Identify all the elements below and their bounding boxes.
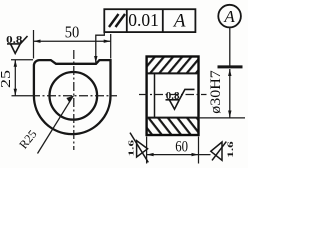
svg-text:A: A <box>172 11 186 32</box>
roughness 1.6 right <box>211 142 222 160</box>
dim dia30H7 line <box>229 69 231 118</box>
feature control frame <box>104 9 195 32</box>
datum bar <box>218 65 243 68</box>
inner step line <box>154 73 156 117</box>
svg-text:ø30H7: ø30H7 <box>208 70 225 114</box>
svg-text:A: A <box>223 7 235 26</box>
vertical center line <box>73 50 75 150</box>
svg-text:0.8: 0.8 <box>166 91 180 101</box>
bore bottom line <box>147 117 199 119</box>
parallelism symbol <box>109 14 119 27</box>
right view hatch bottom band <box>147 118 199 135</box>
roughness 1.6 left <box>137 141 148 157</box>
roughness 0.8 in bore <box>166 89 195 109</box>
svg-text:50: 50 <box>65 24 80 42</box>
right view center line <box>139 94 207 96</box>
svg-text:0.01: 0.01 <box>128 10 159 30</box>
svg-text:1.6: 1.6 <box>127 139 135 156</box>
dim 25 ext line top <box>11 59 33 61</box>
dim 60 line <box>147 154 211 156</box>
svg-text:0.8: 0.8 <box>6 34 22 45</box>
bore top line <box>147 72 199 74</box>
right view outer rect <box>147 57 199 136</box>
dim 50 line <box>34 40 111 42</box>
horizontal center line <box>12 95 32 97</box>
frame leader <box>96 32 105 62</box>
bore bottom ext line <box>199 117 246 119</box>
dim 50 ext lines <box>33 30 35 59</box>
svg-text:25: 25 <box>0 70 14 88</box>
svg-text:1.6: 1.6 <box>226 141 235 158</box>
datum A circle <box>218 5 241 28</box>
left view outline <box>34 60 111 134</box>
datum stem <box>229 27 231 66</box>
right view hatch top band <box>147 57 199 74</box>
roughness 0.8 top-left <box>7 36 28 53</box>
R25 leader <box>38 96 74 154</box>
dim 25 line <box>14 60 16 96</box>
dim 60 ext lines <box>146 137 148 164</box>
svg-text:60: 60 <box>175 138 188 156</box>
hole circle <box>50 72 98 120</box>
